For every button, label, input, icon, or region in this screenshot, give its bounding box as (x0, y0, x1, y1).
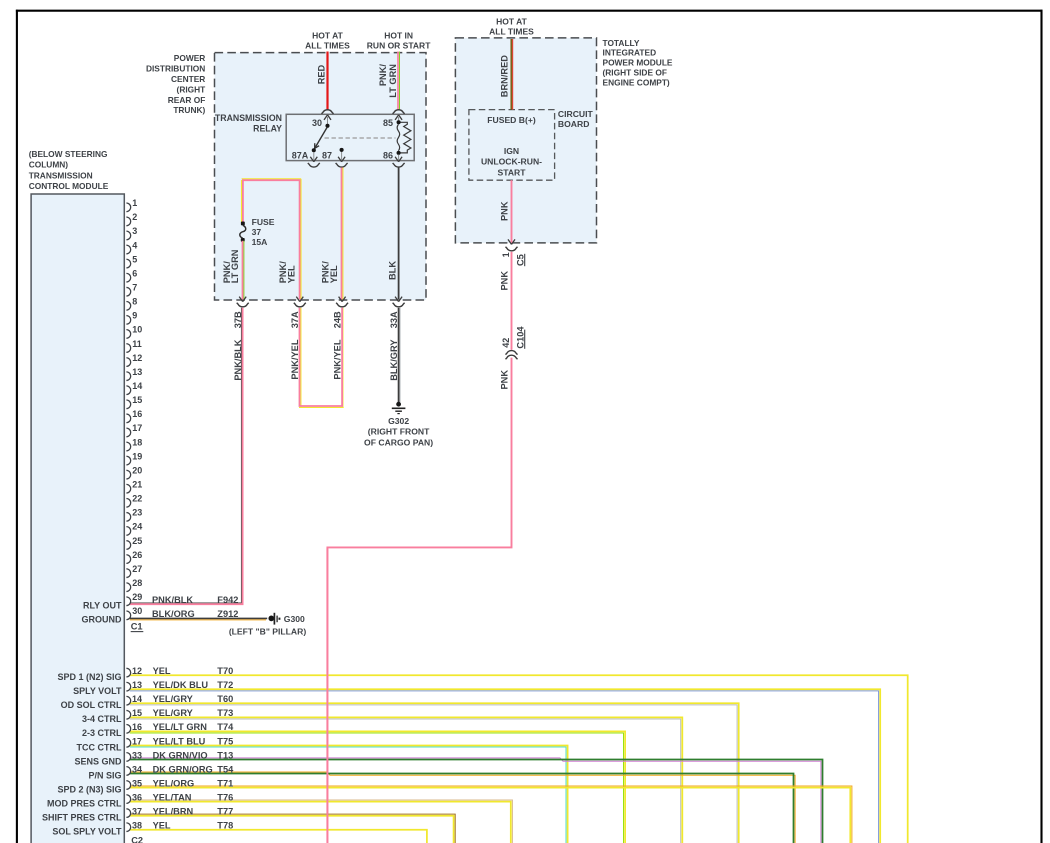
label PNK (inside TIPM) (500, 201, 510, 221)
label PNK/YEL (pin 87 wire) (320, 261, 338, 284)
svg-text:10: 10 (132, 325, 142, 335)
TCM C2 pin 33 connector (126, 753, 130, 762)
wire RED hot-at-all-times feed (326, 52, 328, 110)
wire C2 pin 15 YEL/GRY circuit T73 (130, 717, 683, 843)
svg-text:TRANSMISSION: TRANSMISSION (215, 113, 282, 123)
relay pin 85 dot (397, 120, 401, 124)
svg-text:ALL TIMES: ALL TIMES (305, 41, 350, 51)
svg-text:OD SOL CTRL: OD SOL CTRL (61, 700, 122, 710)
wire C2 pin 38 YEL circuit T78 (130, 830, 427, 843)
svg-text:REAR OF: REAR OF (168, 95, 206, 105)
svg-text:YEL: YEL (153, 666, 171, 676)
svg-text:24B: 24B (333, 311, 343, 328)
svg-text:SPD 2 (N3) SIG: SPD 2 (N3) SIG (57, 784, 121, 794)
relay pin 85 arrow (395, 115, 402, 122)
svg-text:16: 16 (132, 409, 142, 419)
relay pin 86 stem+arrow (395, 155, 402, 162)
svg-text:PNK/: PNK/ (378, 64, 388, 87)
svg-text:42: 42 (501, 338, 511, 348)
svg-text:UNLOCK-RUN-: UNLOCK-RUN- (481, 157, 542, 167)
wire 37B PNK/BLK to TCM pin 29 (130, 308, 243, 604)
svg-text:RELAY: RELAY (253, 124, 282, 134)
relay pin 87A label (292, 150, 309, 160)
svg-text:IGN: IGN (504, 146, 519, 156)
hot at all times label (left) (305, 31, 350, 51)
label SPLY VOLT (73, 686, 122, 696)
circuit board label (558, 109, 594, 129)
TCM box (transmission control module) (31, 194, 124, 843)
svg-text:24: 24 (132, 522, 142, 532)
label pin 1 (C5) (501, 252, 511, 257)
svg-text:PNK/YEL: PNK/YEL (290, 339, 300, 379)
TCM C2 pin 36 connector (126, 795, 130, 804)
svg-text:37: 37 (132, 807, 142, 817)
TIPM circuit board inner box (469, 110, 555, 181)
relay pin 86 dot (397, 151, 401, 155)
svg-text:POWER: POWER (174, 53, 206, 63)
label C2 (131, 835, 143, 843)
pin86 wire arrow at PDC exit (395, 297, 402, 302)
label P/N SIG (88, 770, 121, 780)
label 24B (333, 311, 343, 328)
svg-text:17: 17 (132, 423, 142, 433)
label PNK/YEL (fuse loop) (278, 261, 296, 284)
svg-text:HOT AT: HOT AT (312, 31, 343, 41)
TCM C2 pin 13 connector (126, 682, 130, 691)
label TCC CTRL (77, 742, 122, 752)
relay pin 85 label (383, 118, 393, 128)
wire PNK C104 down-left to bottom (327, 358, 511, 843)
wire PNK/LT GRN hot-in-run feed (398, 52, 400, 110)
svg-text:1: 1 (501, 252, 511, 257)
relay coil 85-86 (397, 124, 400, 150)
relay pin 87 dot (340, 148, 344, 152)
svg-text:T76: T76 (217, 792, 233, 802)
fuse loop connector cup 37A (294, 303, 306, 307)
svg-text:F942: F942 (217, 595, 238, 605)
wire C2 pin 16 YEL/LT GRN circuit T74 (130, 731, 625, 843)
label BLK (387, 261, 397, 280)
svg-text:T60: T60 (217, 694, 233, 704)
svg-text:PNK: PNK (500, 271, 510, 291)
pin87 wire arrow at PDC exit (339, 297, 346, 302)
label SPD 1 (N2) SIG (57, 672, 121, 682)
label PNK/LT GRN (feed) (378, 64, 398, 98)
svg-text:C2: C2 (131, 835, 143, 843)
svg-text:T78: T78 (217, 821, 233, 831)
connector C104 inline (506, 351, 518, 360)
svg-text:P/N SIG: P/N SIG (88, 770, 121, 780)
relay pin 30 connector cap (322, 110, 334, 114)
svg-text:YEL/GRY: YEL/GRY (153, 694, 194, 704)
pin 36 wire labels (132, 792, 233, 802)
svg-text:YEL: YEL (287, 265, 297, 283)
svg-text:36: 36 (132, 792, 142, 802)
label BLK/GRY (33A) (389, 339, 399, 381)
label MOD PRES CTRL (47, 798, 122, 808)
relay coil resistor (401, 122, 411, 153)
svg-text:PNK/BLK: PNK/BLK (233, 339, 243, 380)
relay switch arm 30-87A (315, 127, 328, 149)
hot in run or start label (367, 31, 431, 51)
svg-text:33A: 33A (389, 311, 399, 328)
svg-text:START: START (497, 167, 526, 177)
pin 34 wire labels (132, 764, 234, 774)
svg-text:T71: T71 (217, 778, 233, 788)
svg-text:T72: T72 (217, 680, 233, 690)
TCM C2 pin 38 connector (126, 823, 130, 832)
pin 14 wire labels (132, 694, 233, 704)
label pin 42 (C104) (501, 338, 511, 348)
relay pin 30 label (312, 118, 322, 128)
svg-text:34: 34 (132, 764, 142, 774)
svg-text:DK GRN/VIO: DK GRN/VIO (153, 750, 208, 760)
svg-text:RLY OUT: RLY OUT (83, 600, 122, 610)
svg-text:DK GRN/ORG: DK GRN/ORG (153, 764, 213, 774)
svg-text:TCC CTRL: TCC CTRL (77, 742, 122, 752)
svg-text:86: 86 (383, 150, 393, 160)
svg-text:11: 11 (132, 339, 142, 349)
label C5 (515, 254, 525, 266)
svg-text:TRUNK): TRUNK) (173, 105, 205, 115)
svg-text:CIRCUIT: CIRCUIT (558, 109, 594, 119)
svg-text:1: 1 (132, 198, 137, 208)
svg-text:FUSE: FUSE (252, 217, 275, 227)
svg-text:4: 4 (132, 240, 137, 250)
svg-text:33: 33 (132, 750, 142, 760)
wire C2 pin 17 YEL/LT BLU circuit T75 (130, 745, 568, 843)
relay pin 30 dot (325, 124, 329, 128)
TCM C2 pin 15 connector (126, 710, 130, 719)
svg-text:38: 38 (132, 821, 142, 831)
pin 33 wire labels (132, 750, 233, 760)
svg-text:2-3 CTRL: 2-3 CTRL (82, 728, 122, 738)
svg-text:G300: G300 (284, 614, 305, 624)
wire C2 pin 36 YEL/TAN circuit T76 (130, 800, 513, 843)
svg-text:HOT IN: HOT IN (384, 31, 413, 41)
pin 15 wire labels (132, 708, 233, 718)
svg-text:G302: G302 (388, 416, 409, 426)
relay internal dashed link (325, 137, 396, 139)
label 2-3 CTRL (82, 728, 122, 738)
PDC label (146, 53, 206, 115)
svg-text:C5: C5 (515, 254, 525, 266)
pin 37 wire labels (132, 807, 233, 817)
svg-text:BRN/RED: BRN/RED (500, 55, 510, 97)
svg-text:(BELOW STEERING: (BELOW STEERING (29, 149, 108, 159)
label 3-4 CTRL (82, 714, 122, 724)
label PNK/YEL (37A) (290, 339, 300, 379)
svg-text:37: 37 (252, 227, 262, 237)
svg-text:T13: T13 (217, 750, 233, 760)
ground G302 label (364, 416, 433, 447)
TCM C2 pin 34 connector (126, 767, 130, 776)
TCM C2 pin 16 connector (126, 725, 130, 734)
pin 29 wire labels (152, 595, 238, 605)
svg-text:(RIGHT: (RIGHT (177, 84, 206, 94)
svg-text:SOL SPLY VOLT: SOL SPLY VOLT (52, 827, 122, 837)
svg-text:YEL/TAN: YEL/TAN (153, 792, 192, 802)
svg-text:35: 35 (132, 778, 142, 788)
relay pin 87 connector cup (336, 163, 348, 167)
label C1 (131, 622, 144, 632)
wire PNK C5 to C104 (511, 252, 513, 350)
svg-text:BLK/GRY: BLK/GRY (389, 339, 399, 381)
svg-text:CONTROL MODULE: CONTROL MODULE (29, 181, 109, 191)
pin 13 wire labels (132, 680, 233, 690)
svg-text:21: 21 (132, 480, 142, 490)
wire C2 pin 12 YEL circuit T70 (130, 675, 908, 843)
svg-text:C104: C104 (515, 326, 525, 349)
svg-text:13: 13 (132, 680, 142, 690)
wire PNK/LT GRN fuse to PDC exit (243, 241, 244, 300)
label SHIFT PRES CTRL (42, 813, 122, 823)
label SPD 2 (N3) SIG (57, 784, 121, 794)
svg-text:MOD PRES CTRL: MOD PRES CTRL (47, 798, 122, 808)
label PNK (below C104) (500, 370, 510, 390)
label C104 (515, 326, 525, 349)
label PNK/LT GRN (fuse wire) (222, 249, 240, 283)
TCM connector C1 pins 1-30 (126, 198, 142, 620)
TCM label (29, 149, 109, 191)
svg-text:12: 12 (132, 666, 142, 676)
relay pin 87 label (322, 150, 332, 160)
svg-text:29: 29 (132, 592, 142, 602)
svg-text:CENTER: CENTER (171, 74, 205, 84)
svg-text:SHIFT PRES CTRL: SHIFT PRES CTRL (42, 813, 122, 823)
svg-text:37B: 37B (233, 311, 243, 328)
svg-text:14: 14 (132, 694, 142, 704)
svg-text:HOT AT: HOT AT (496, 17, 527, 27)
svg-text:3: 3 (132, 226, 137, 236)
svg-text:37A: 37A (290, 311, 300, 328)
label PNK/YEL (24B) (333, 339, 343, 379)
svg-text:SENS GND: SENS GND (74, 756, 122, 766)
wire C2 pin 37 YEL/BRN circuit T77 (130, 814, 455, 843)
svg-text:20: 20 (132, 465, 142, 475)
svg-text:COLUMN): COLUMN) (29, 160, 69, 170)
svg-text:YEL: YEL (329, 265, 339, 283)
svg-text:GROUND: GROUND (82, 615, 122, 625)
svg-text:ENGINE COMPT): ENGINE COMPT) (603, 77, 670, 87)
label 37B (233, 311, 243, 328)
svg-text:T77: T77 (217, 807, 233, 817)
label RLY OUT (83, 600, 122, 610)
svg-text:PNK: PNK (500, 201, 510, 221)
wire BRN/RED TIPM feed (511, 39, 512, 110)
relay pin 87 stem+arrow (338, 152, 345, 162)
ground G300 symbol (268, 613, 280, 625)
svg-text:87A: 87A (292, 150, 309, 160)
svg-text:LT GRN: LT GRN (230, 249, 240, 283)
svg-text:T75: T75 (217, 736, 233, 746)
svg-text:(RIGHT FRONT: (RIGHT FRONT (368, 427, 430, 437)
ground G302 symbol (392, 402, 406, 414)
relay pin 86 label (383, 150, 393, 160)
svg-text:SPD 1 (N2) SIG: SPD 1 (N2) SIG (57, 672, 121, 682)
fuse 37 (240, 222, 246, 242)
relay pin 85 connector cap (393, 110, 405, 114)
svg-text:YEL/ORG: YEL/ORG (153, 778, 195, 788)
TCM C2 pin 14 connector (126, 696, 130, 705)
svg-text:(RIGHT SIDE OF: (RIGHT SIDE OF (603, 68, 667, 78)
svg-text:5: 5 (132, 254, 137, 264)
svg-text:2: 2 (132, 212, 137, 222)
wire 37A/24B PNK/YEL U-link below PDC (299, 308, 344, 408)
label SENS GND (74, 756, 122, 766)
transmission relay label (215, 113, 282, 134)
fuse loop arrow at PDC exit (296, 297, 303, 302)
pin 35 wire labels (132, 778, 233, 788)
pin 38 wire labels (132, 821, 233, 831)
svg-text:19: 19 (132, 451, 142, 461)
pin 12 wire labels (132, 666, 233, 676)
svg-text:12: 12 (132, 353, 142, 363)
TCM C2 pin 17 connector (126, 739, 130, 748)
svg-text:RED: RED (316, 64, 326, 84)
svg-text:Z912: Z912 (217, 609, 238, 619)
relay pin 87A connector cup (308, 163, 320, 167)
fuse 37 loop wire PNK/YEL (87A branch) (242, 179, 302, 300)
svg-text:YEL/DK BLU: YEL/DK BLU (153, 680, 209, 690)
wire C2 pin 33 DK GRN/VIO circuit T13 (130, 758, 823, 843)
pin 16 wire labels (132, 722, 234, 732)
label PNK/BLK (37B) (233, 339, 243, 380)
label 37A (290, 311, 300, 328)
svg-text:ALL TIMES: ALL TIMES (489, 27, 534, 37)
pin 30 wire labels (152, 609, 238, 619)
svg-text:T73: T73 (217, 708, 233, 718)
TCM C2 pin 12 connector (126, 668, 130, 677)
TCM C2 pin 37 connector (126, 809, 130, 818)
svg-text:TOTALLY: TOTALLY (603, 38, 640, 48)
label OD SOL CTRL (61, 700, 122, 710)
svg-text:C1: C1 (131, 622, 143, 632)
wire C2 pin 34 DK GRN/ORG circuit T54 (130, 772, 795, 843)
svg-text:85: 85 (383, 118, 393, 128)
hot at all times label (TIPM) (489, 17, 534, 37)
svg-text:22: 22 (132, 494, 142, 504)
svg-text:INTEGRATED: INTEGRATED (603, 48, 657, 58)
wire BLK/ORG TCM pin 30 to G300 (130, 618, 267, 620)
wire BLK relay 86 to PDC exit (398, 168, 400, 300)
svg-text:15A: 15A (252, 237, 268, 247)
wire 33A BLK/GRY to ground G302 (399, 308, 401, 402)
svg-text:YEL/LT BLU: YEL/LT BLU (153, 736, 206, 746)
connector C5 cup pin 1 (506, 247, 518, 251)
fuse wire connector cup 37B (237, 303, 249, 307)
wire PNK vertical overlay (crosses fan) (326, 548, 328, 843)
svg-text:26: 26 (132, 550, 142, 560)
relay pin 86 connector cup (393, 163, 405, 167)
fuse wire arrow at PDC exit (239, 297, 246, 302)
ign unlock-run-start label (481, 146, 542, 177)
relay pin 87A dot (312, 148, 316, 152)
svg-text:14: 14 (132, 381, 142, 391)
svg-text:TRANSMISSION: TRANSMISSION (29, 170, 93, 180)
svg-text:FUSED B(+): FUSED B(+) (487, 115, 536, 125)
svg-text:BLK/ORG: BLK/ORG (152, 609, 195, 619)
fuse 37 label (252, 217, 275, 247)
relay pin 30 arrow (324, 115, 331, 126)
svg-text:3-4 CTRL: 3-4 CTRL (82, 714, 122, 724)
svg-text:25: 25 (132, 536, 142, 546)
wire C2 pin 13 YEL/DK BLU circuit T72 (130, 689, 880, 843)
svg-text:27: 27 (132, 564, 142, 574)
svg-text:8: 8 (132, 297, 137, 307)
label 33A (389, 311, 399, 328)
svg-text:T74: T74 (217, 722, 234, 732)
svg-text:23: 23 (132, 508, 142, 518)
svg-text:(LEFT "B" PILLAR): (LEFT "B" PILLAR) (229, 626, 307, 636)
TCM C2 pin 35 connector (126, 781, 130, 790)
ground G300 label (229, 614, 307, 637)
label GROUND (82, 615, 122, 625)
TIPM label (603, 38, 673, 88)
svg-text:9: 9 (132, 311, 137, 321)
svg-text:18: 18 (132, 437, 142, 447)
fused B(+) label (487, 115, 536, 125)
wire PNK/YEL relay 87 to PDC exit (342, 168, 343, 300)
svg-text:LT GRN: LT GRN (388, 64, 398, 98)
svg-text:15: 15 (132, 395, 142, 405)
svg-text:PNK/BLK: PNK/BLK (152, 595, 193, 605)
wire PNK ign output inside TIPM (511, 180, 513, 243)
svg-text:87: 87 (322, 150, 332, 160)
pin87 wire connector cup 24B (336, 303, 348, 307)
svg-text:PNK/YEL: PNK/YEL (333, 339, 343, 379)
svg-text:DISTRIBUTION: DISTRIBUTION (146, 64, 205, 74)
label BRN/RED (500, 55, 510, 97)
relay pin 87A stem+arrow (310, 152, 317, 162)
svg-text:T70: T70 (217, 666, 233, 676)
svg-text:POWER MODULE: POWER MODULE (603, 58, 673, 68)
svg-text:16: 16 (132, 722, 142, 732)
label SOL SPLY VOLT (52, 827, 122, 837)
svg-text:YEL/GRY: YEL/GRY (153, 708, 194, 718)
power distribution center box (PDC) (215, 53, 427, 300)
label PNK (C5-C104) (500, 271, 510, 291)
svg-text:30: 30 (132, 606, 142, 616)
TIPM exit arrow (508, 239, 515, 244)
label RED (316, 64, 326, 84)
svg-text:YEL/BRN: YEL/BRN (153, 807, 194, 817)
svg-text:30: 30 (312, 118, 322, 128)
svg-text:13: 13 (132, 367, 142, 377)
pin 17 wire labels (132, 736, 233, 746)
svg-text:BLK: BLK (387, 261, 397, 280)
svg-text:BOARD: BOARD (558, 119, 590, 129)
TIPM box (totally integrated power module) (455, 38, 596, 243)
svg-text:YEL/LT GRN: YEL/LT GRN (153, 722, 208, 732)
svg-text:YEL: YEL (153, 821, 171, 831)
svg-text:OF CARGO PAN): OF CARGO PAN) (364, 437, 433, 447)
svg-text:15: 15 (132, 708, 142, 718)
svg-text:T54: T54 (217, 764, 234, 774)
transmission relay box (286, 114, 414, 160)
svg-text:RUN OR START: RUN OR START (367, 41, 431, 51)
svg-text:6: 6 (132, 268, 137, 278)
svg-text:SPLY VOLT: SPLY VOLT (73, 686, 122, 696)
svg-text:28: 28 (132, 578, 142, 588)
pin86 wire connector cup 33A (393, 303, 405, 307)
svg-text:17: 17 (132, 736, 142, 746)
svg-text:PNK: PNK (500, 370, 510, 390)
svg-text:7: 7 (132, 283, 137, 293)
wire C2 pin 14 YEL/GRY circuit T60 (130, 703, 739, 843)
wire C2 pin 35 YEL/ORG circuit T71 (130, 786, 852, 843)
